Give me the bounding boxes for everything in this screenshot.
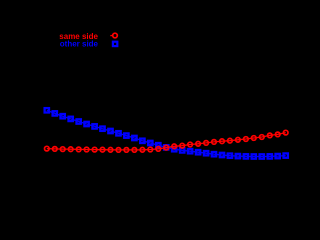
legend marker: red circle [113,33,118,38]
red series line: same side [47,133,286,150]
legend sample line: same side [110,35,113,37]
red series markers: open circles [45,130,289,152]
svg-text:other side: other side [60,40,99,49]
blue series line: other side [47,110,286,156]
legend marker: blue square [113,42,117,46]
blue series markers: open squares [45,108,288,159]
